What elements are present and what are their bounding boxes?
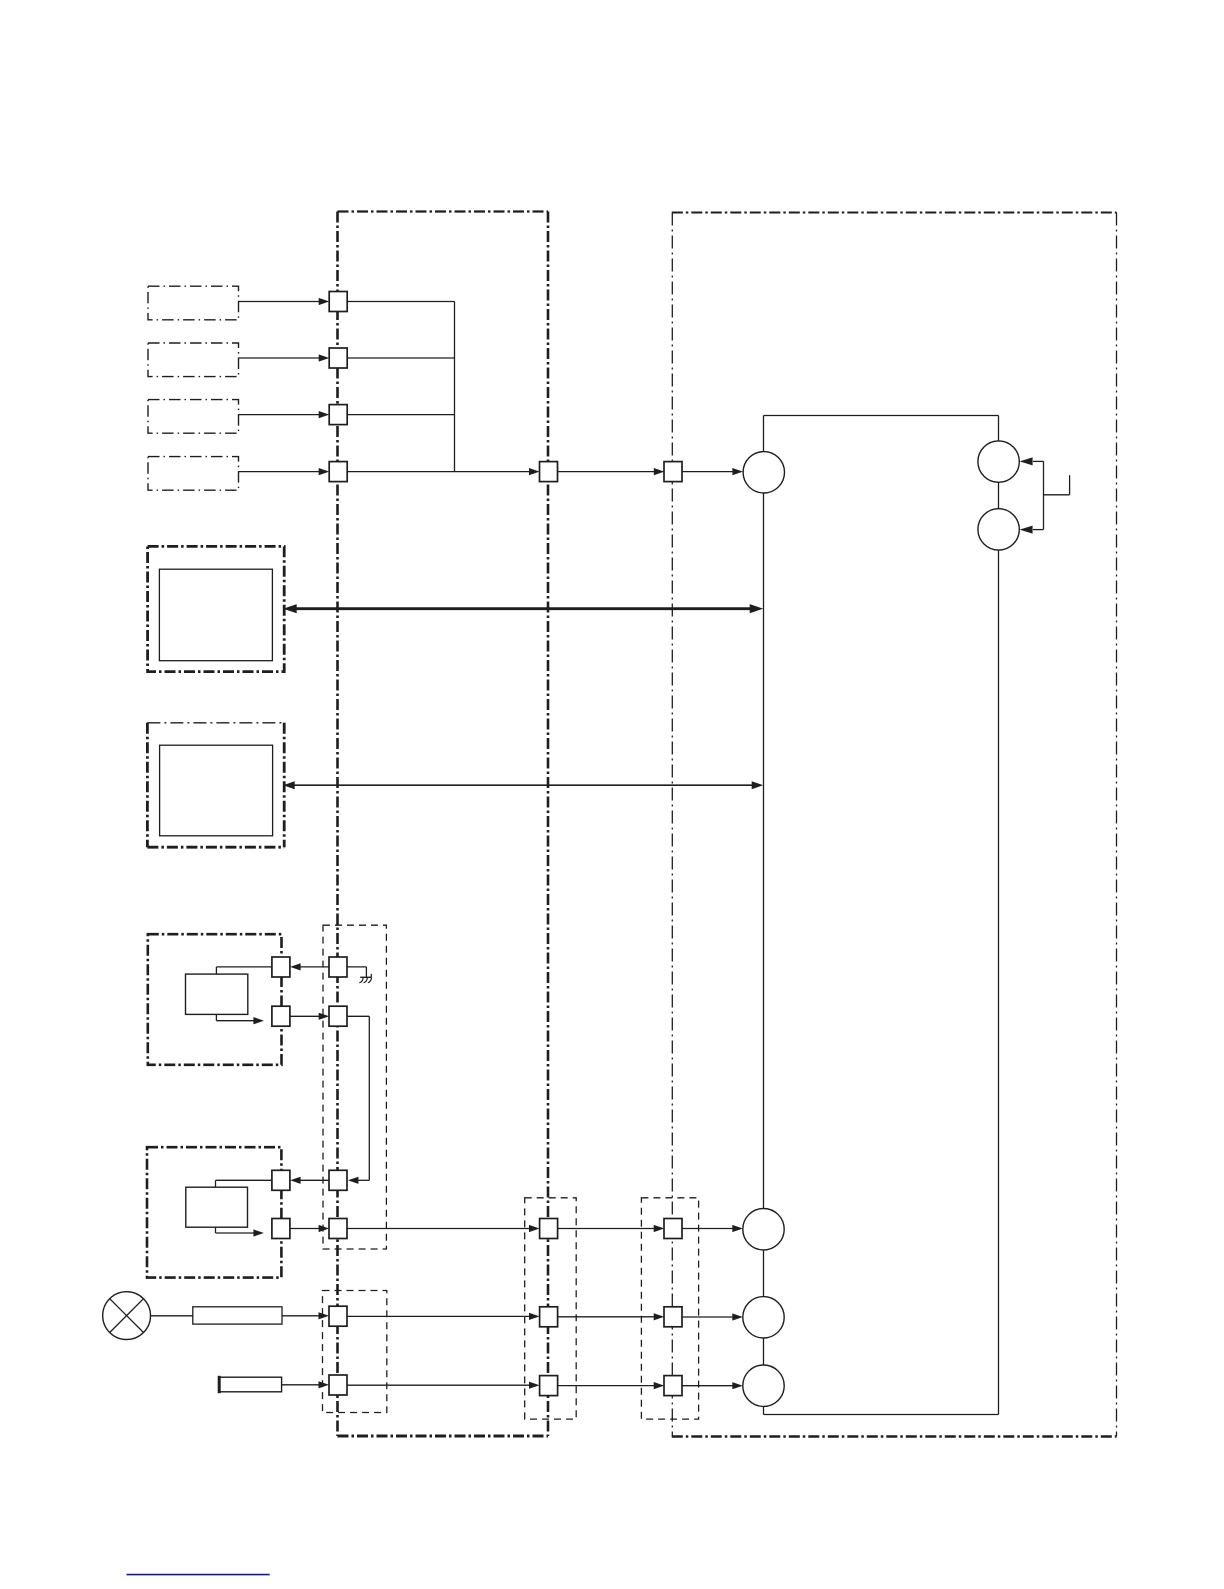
- wire pin C4 to terminal TC: [682, 1382, 743, 1389]
- connector pin M1b: [272, 1006, 290, 1026]
- wire pin N4 to pin B4: [347, 1382, 540, 1389]
- wire M2 feed: [216, 1180, 272, 1187]
- sensor box S4: [148, 457, 239, 491]
- wire sensor S4 to junction block: [239, 468, 330, 475]
- connector pin M1a: [272, 957, 290, 977]
- connector pin N2a on J/B: [329, 1170, 347, 1190]
- lamp L1: [103, 1292, 151, 1340]
- wire pin B2 to pin C2: [558, 1225, 665, 1232]
- connector pin N1b on J/B: [329, 1006, 347, 1026]
- wire pin M1b to J/B: [290, 1013, 329, 1020]
- motor unit M2 boundary: [147, 1147, 281, 1277]
- motor unit M1 boundary: [148, 934, 282, 1065]
- connector pin N2b on J/B: [329, 1219, 347, 1239]
- wire switch to pin N4: [282, 1381, 329, 1388]
- wire J/B to pin M2a: [290, 1177, 329, 1184]
- connector pin B3: [540, 1307, 558, 1327]
- display unit D2 boundary: [147, 723, 284, 847]
- switch S5 body: [219, 1376, 281, 1393]
- connector pin N1a on J/B: [329, 957, 347, 977]
- terminal T1: [978, 441, 1019, 482]
- wire M1 feed: [216, 967, 272, 974]
- wire pin N1a to ground: [347, 967, 366, 977]
- connector housing box (motor rows): [323, 925, 386, 1249]
- display unit D1 screen: [159, 569, 272, 661]
- resistor R1: [193, 1307, 282, 1324]
- display unit D2 screen: [160, 745, 273, 836]
- footer hyperlink rule: [127, 1574, 270, 1576]
- connector pin B1 on J/B right edge: [540, 462, 558, 482]
- junction block J/B boundary (centre dash-dot box): [338, 212, 549, 1437]
- wire feedback bracket vertical: [1043, 461, 1045, 529]
- connector housing box (lamp/switch rows): [323, 1291, 387, 1413]
- wire pin N2b to pin B2: [347, 1225, 540, 1232]
- terminal T2: [978, 509, 1019, 550]
- connector housing box (column C bottom): [641, 1198, 698, 1419]
- bus wire D1 to ECU (bidirectional, heavy): [283, 604, 763, 613]
- sensor box S2: [148, 343, 239, 377]
- wire resistor to pin N3: [282, 1312, 329, 1319]
- connector pin C4: [664, 1376, 682, 1396]
- wire bus from pin A3: [347, 414, 454, 416]
- wire lamp to resistor: [151, 1315, 193, 1317]
- wire M2 return with arrow: [216, 1227, 264, 1236]
- connector pin C3: [664, 1307, 682, 1327]
- wire J/B to pin M1a: [290, 963, 329, 970]
- wire pin B4 to pin C4: [558, 1382, 665, 1389]
- wire pin A4 to pin B1: [347, 468, 539, 475]
- connector pin A4 on J/B left edge: [329, 462, 347, 482]
- wire sensor S2 to junction block: [239, 354, 330, 361]
- wire bus from pin A1: [347, 301, 454, 303]
- wire pin N3 to pin B3: [347, 1313, 540, 1320]
- wire pin B3 to pin C3: [558, 1313, 665, 1320]
- connector pin A2 on J/B left edge: [329, 348, 347, 368]
- ECU boundary (large right dash-dot box): [672, 213, 1117, 1437]
- wire feedback bracket into T2: [1020, 526, 1044, 534]
- connector pin B4: [540, 1376, 558, 1396]
- connector pin A1 on J/B left edge: [329, 292, 347, 312]
- connector pin B2: [540, 1219, 558, 1239]
- wire feedback bracket into T1: [1020, 457, 1044, 465]
- wire M1 return with arrow: [216, 1014, 264, 1024]
- motor M1 body: [186, 974, 248, 1014]
- terminal TC: [743, 1365, 784, 1406]
- wire feedback stub: [1044, 475, 1070, 495]
- wire sensor S3 to junction block: [239, 411, 330, 418]
- wire pin B1 to pin C1: [558, 468, 665, 475]
- connector pin N3 on J/B: [329, 1306, 347, 1326]
- bus wire D2 to ECU (bidirectional): [283, 781, 763, 789]
- wire ECU internal bus bottom: [764, 1414, 999, 1416]
- connector pin C1 on ECU edge: [664, 462, 682, 482]
- wire pin M2b to J/B: [290, 1225, 329, 1232]
- connector pin A3 on J/B left edge: [329, 405, 347, 425]
- connector pin N4 on J/B: [329, 1375, 347, 1395]
- wire pin C1 to terminal T0: [682, 468, 743, 475]
- connector pin C2: [664, 1219, 682, 1239]
- terminal TA: [743, 1209, 784, 1250]
- wire sensor S1 to junction block: [239, 298, 330, 305]
- wire pin C2 to terminal TA: [682, 1225, 743, 1232]
- display unit D1 boundary: [148, 546, 285, 671]
- connector pin M2b: [272, 1219, 290, 1239]
- wire pin C3 to terminal TB: [682, 1313, 743, 1320]
- connector housing box (column B bottom): [525, 1198, 577, 1419]
- sensor box S1: [148, 286, 239, 320]
- ground (chassis): [359, 974, 371, 983]
- wire pin N1b down to pin N2a: [347, 1016, 369, 1184]
- wire ECU internal bus right vertical: [998, 416, 1000, 1415]
- terminal T0: [743, 452, 784, 493]
- wire ECU internal bus top: [764, 415, 999, 417]
- motor M2 body: [186, 1187, 248, 1227]
- sensor box S3: [148, 400, 239, 434]
- connector pin M2a: [272, 1170, 290, 1190]
- terminal TB: [743, 1297, 784, 1338]
- bus junction vertical wire: [454, 302, 456, 472]
- wire bus from pin A2: [347, 357, 454, 359]
- wire ECU internal bus left vertical: [763, 416, 765, 1415]
